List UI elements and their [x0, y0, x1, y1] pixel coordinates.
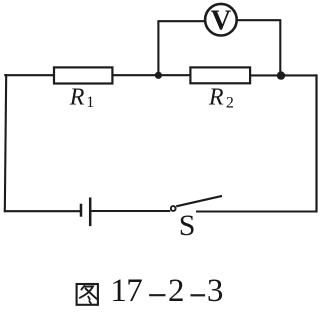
svg-text:2: 2	[226, 94, 234, 111]
svg-text:R: R	[208, 84, 224, 110]
wire left side	[5, 74, 6, 212]
svg-text:S: S	[179, 209, 196, 242]
resistor R2 body	[190, 67, 250, 83]
svg-text:1: 1	[110, 273, 127, 309]
svg-text:V: V	[211, 6, 232, 37]
wire voltmeter branch right vertical	[279, 20, 281, 76]
caption dash 2	[191, 294, 206, 296]
svg-text:7: 7	[126, 273, 143, 309]
wire voltmeter branch left vertical	[157, 21, 159, 76]
wire voltmeter branch left horizontal	[157, 20, 205, 22]
wire top-left segment	[4, 74, 54, 76]
wire right side	[315, 74, 317, 212]
caption dash 1	[149, 294, 165, 296]
voltmeter V1 circle	[205, 4, 237, 36]
battery positive plate (long)	[89, 198, 92, 227]
svg-text:2: 2	[168, 273, 185, 309]
battery negative plate (short)	[80, 204, 83, 217]
caption character 图 (drawn)	[77, 284, 98, 305]
node junction dot right	[277, 71, 285, 79]
svg-text:R: R	[69, 84, 85, 110]
wire top segment between R1 and R2	[113, 74, 190, 76]
wire voltmeter branch right horizontal	[237, 19, 282, 21]
wire top segment R2 to right corner	[251, 74, 318, 76]
wire bottom-left segment (to battery)	[4, 210, 80, 212]
svg-text:3: 3	[207, 273, 224, 309]
wire switch to bottom-right corner	[196, 210, 317, 212]
svg-text:1: 1	[86, 94, 94, 111]
switch S lever arm	[176, 196, 222, 206]
node junction dot left	[155, 72, 162, 79]
resistor R1 body	[54, 67, 112, 83]
switch S pivot circle	[171, 206, 176, 211]
wire battery to switch	[91, 210, 170, 212]
